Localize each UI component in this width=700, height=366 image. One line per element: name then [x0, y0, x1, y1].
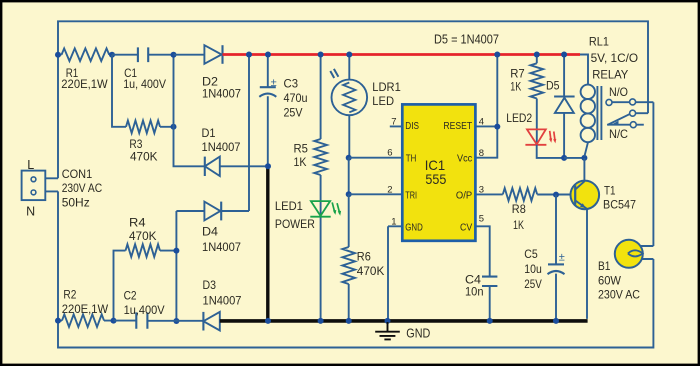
resistor R4: [114, 215, 180, 320]
svg-text:1K: 1K: [510, 80, 521, 94]
svg-text:±: ±: [559, 251, 565, 263]
svg-text:B1: B1: [598, 259, 611, 273]
diode D2: [174, 45, 242, 100]
svg-text:8: 8: [479, 148, 484, 159]
ground: [375, 322, 430, 341]
svg-text:C3: C3: [284, 77, 299, 91]
svg-text:5V, 1C/O: 5V, 1C/O: [591, 51, 639, 65]
svg-text:470K: 470K: [129, 229, 157, 243]
svg-text:TH: TH: [406, 154, 417, 165]
svg-text:1K: 1K: [513, 218, 524, 232]
svg-text:GND: GND: [405, 223, 423, 234]
svg-text:C2: C2: [124, 288, 137, 302]
svg-text:10n: 10n: [465, 284, 484, 298]
svg-text:N: N: [26, 205, 35, 219]
svg-text:R2: R2: [63, 288, 76, 302]
resistor R3: [112, 55, 177, 164]
svg-text:220E,1W: 220E,1W: [61, 77, 108, 91]
wire TH-TRI column: [346, 158, 352, 198]
svg-text:CON1: CON1: [62, 167, 93, 181]
svg-text:5: 5: [479, 214, 484, 225]
svg-text:230V AC: 230V AC: [598, 288, 640, 302]
svg-text:60W: 60W: [598, 273, 622, 287]
wire C3 ground drop (black): [265, 163, 271, 324]
svg-text:L: L: [27, 158, 34, 172]
resistor R2: [55, 288, 117, 327]
svg-text:230V AC: 230V AC: [62, 181, 103, 195]
text D5 note: [434, 33, 499, 47]
wire positive rail (red): [223, 53, 581, 56]
pin numbers IC1: [387, 116, 484, 227]
resistor R5: [294, 52, 327, 176]
svg-text:D4: D4: [202, 224, 218, 238]
LED LED2: [506, 99, 564, 158]
svg-text:470K: 470K: [130, 149, 158, 163]
LED LED1: [275, 175, 341, 324]
svg-text:1N4007: 1N4007: [202, 86, 241, 100]
diode D3: [203, 278, 242, 330]
svg-text:10u: 10u: [524, 262, 542, 276]
wire ground bus (black): [220, 319, 588, 323]
connector CON1: [22, 158, 103, 219]
svg-text:RESET: RESET: [443, 121, 472, 132]
svg-text:BC547: BC547: [603, 198, 636, 212]
capacitor C3: [259, 52, 307, 167]
svg-text:C5: C5: [524, 247, 538, 261]
wire top rail and right pole rail: [58, 21, 648, 178]
svg-text:555: 555: [425, 171, 446, 187]
wire bridge rail to red bus: [246, 52, 252, 212]
svg-text:1N4007: 1N4007: [202, 240, 241, 254]
svg-text:D5: D5: [546, 79, 560, 93]
svg-text:470K: 470K: [357, 264, 385, 278]
wire neutral rail (left/bottom/right): [58, 191, 653, 347]
svg-text:3: 3: [479, 185, 484, 196]
transistor T1 (BC547): [571, 158, 637, 319]
svg-text:LED2: LED2: [506, 111, 532, 125]
svg-text:D3: D3: [203, 278, 217, 292]
svg-text:D1: D1: [202, 126, 216, 140]
resistor R1: [55, 48, 115, 91]
svg-text:7: 7: [391, 116, 396, 127]
wire GND pin drop: [385, 226, 391, 324]
svg-text:±: ±: [271, 77, 277, 89]
svg-text:50Hz: 50Hz: [62, 195, 90, 209]
svg-text:POWER: POWER: [275, 217, 315, 231]
svg-text:N/C: N/C: [609, 127, 628, 141]
svg-text:6: 6: [387, 148, 392, 159]
svg-text:1K: 1K: [294, 155, 307, 169]
wire collector node row: [564, 155, 587, 161]
svg-text:RL1: RL1: [589, 35, 609, 49]
wire N/O riser to bulb: [652, 102, 654, 246]
svg-text:DIS: DIS: [405, 121, 419, 132]
svg-text:TRI: TRI: [405, 190, 417, 201]
svg-text:RELAY: RELAY: [592, 67, 628, 81]
svg-text:25V: 25V: [524, 277, 542, 291]
svg-text:LDR1: LDR1: [372, 80, 401, 94]
relay switch contacts: [606, 85, 653, 141]
diode D1: [202, 126, 269, 176]
svg-text:1u,400V: 1u,400V: [124, 303, 165, 317]
svg-text:O/P: O/P: [456, 190, 473, 201]
capacitor C1: [112, 47, 174, 91]
wire node A (C1/D2 junction): [171, 52, 205, 167]
svg-text:25V: 25V: [284, 106, 303, 120]
svg-text:1u, 400V: 1u, 400V: [123, 77, 166, 91]
svg-text:Vcc: Vcc: [457, 154, 472, 165]
relay RL1 coil: [580, 35, 638, 157]
wire node B (C2/D3 junction): [173, 211, 179, 324]
svg-text:4: 4: [479, 117, 484, 128]
resistor R8: [503, 188, 575, 232]
svg-text:R4: R4: [129, 215, 146, 229]
svg-text:LED1: LED1: [275, 199, 303, 213]
capacitor C5: [524, 195, 565, 324]
svg-text:N/O: N/O: [609, 85, 628, 99]
LDR LDR1: [330, 52, 401, 161]
capacitor C4: [465, 272, 497, 324]
capacitor C2: [114, 288, 204, 329]
svg-text:CV: CV: [460, 223, 472, 234]
svg-text:D5 = 1N4007: D5 = 1N4007: [434, 33, 499, 47]
lamp B1: [598, 240, 653, 302]
svg-text:R6: R6: [357, 250, 371, 264]
svg-text:1N4007: 1N4007: [203, 294, 242, 308]
resistor R6: [342, 194, 384, 324]
svg-text:1N4007: 1N4007: [202, 140, 241, 154]
svg-text:R5: R5: [294, 141, 309, 155]
resistor R7: [510, 52, 543, 99]
svg-text:220E,1W: 220E,1W: [62, 302, 109, 316]
svg-text:1: 1: [391, 216, 396, 227]
diode D4: [176, 202, 249, 254]
svg-text:470u: 470u: [284, 91, 308, 105]
svg-text:R8: R8: [512, 202, 526, 216]
svg-text:LED: LED: [372, 94, 394, 108]
svg-text:T1: T1: [604, 183, 616, 197]
IC U1 (IC1 555 timer): [349, 52, 503, 277]
diode D5: [546, 52, 575, 161]
svg-text:GND: GND: [406, 327, 430, 341]
svg-text:2: 2: [387, 184, 392, 195]
